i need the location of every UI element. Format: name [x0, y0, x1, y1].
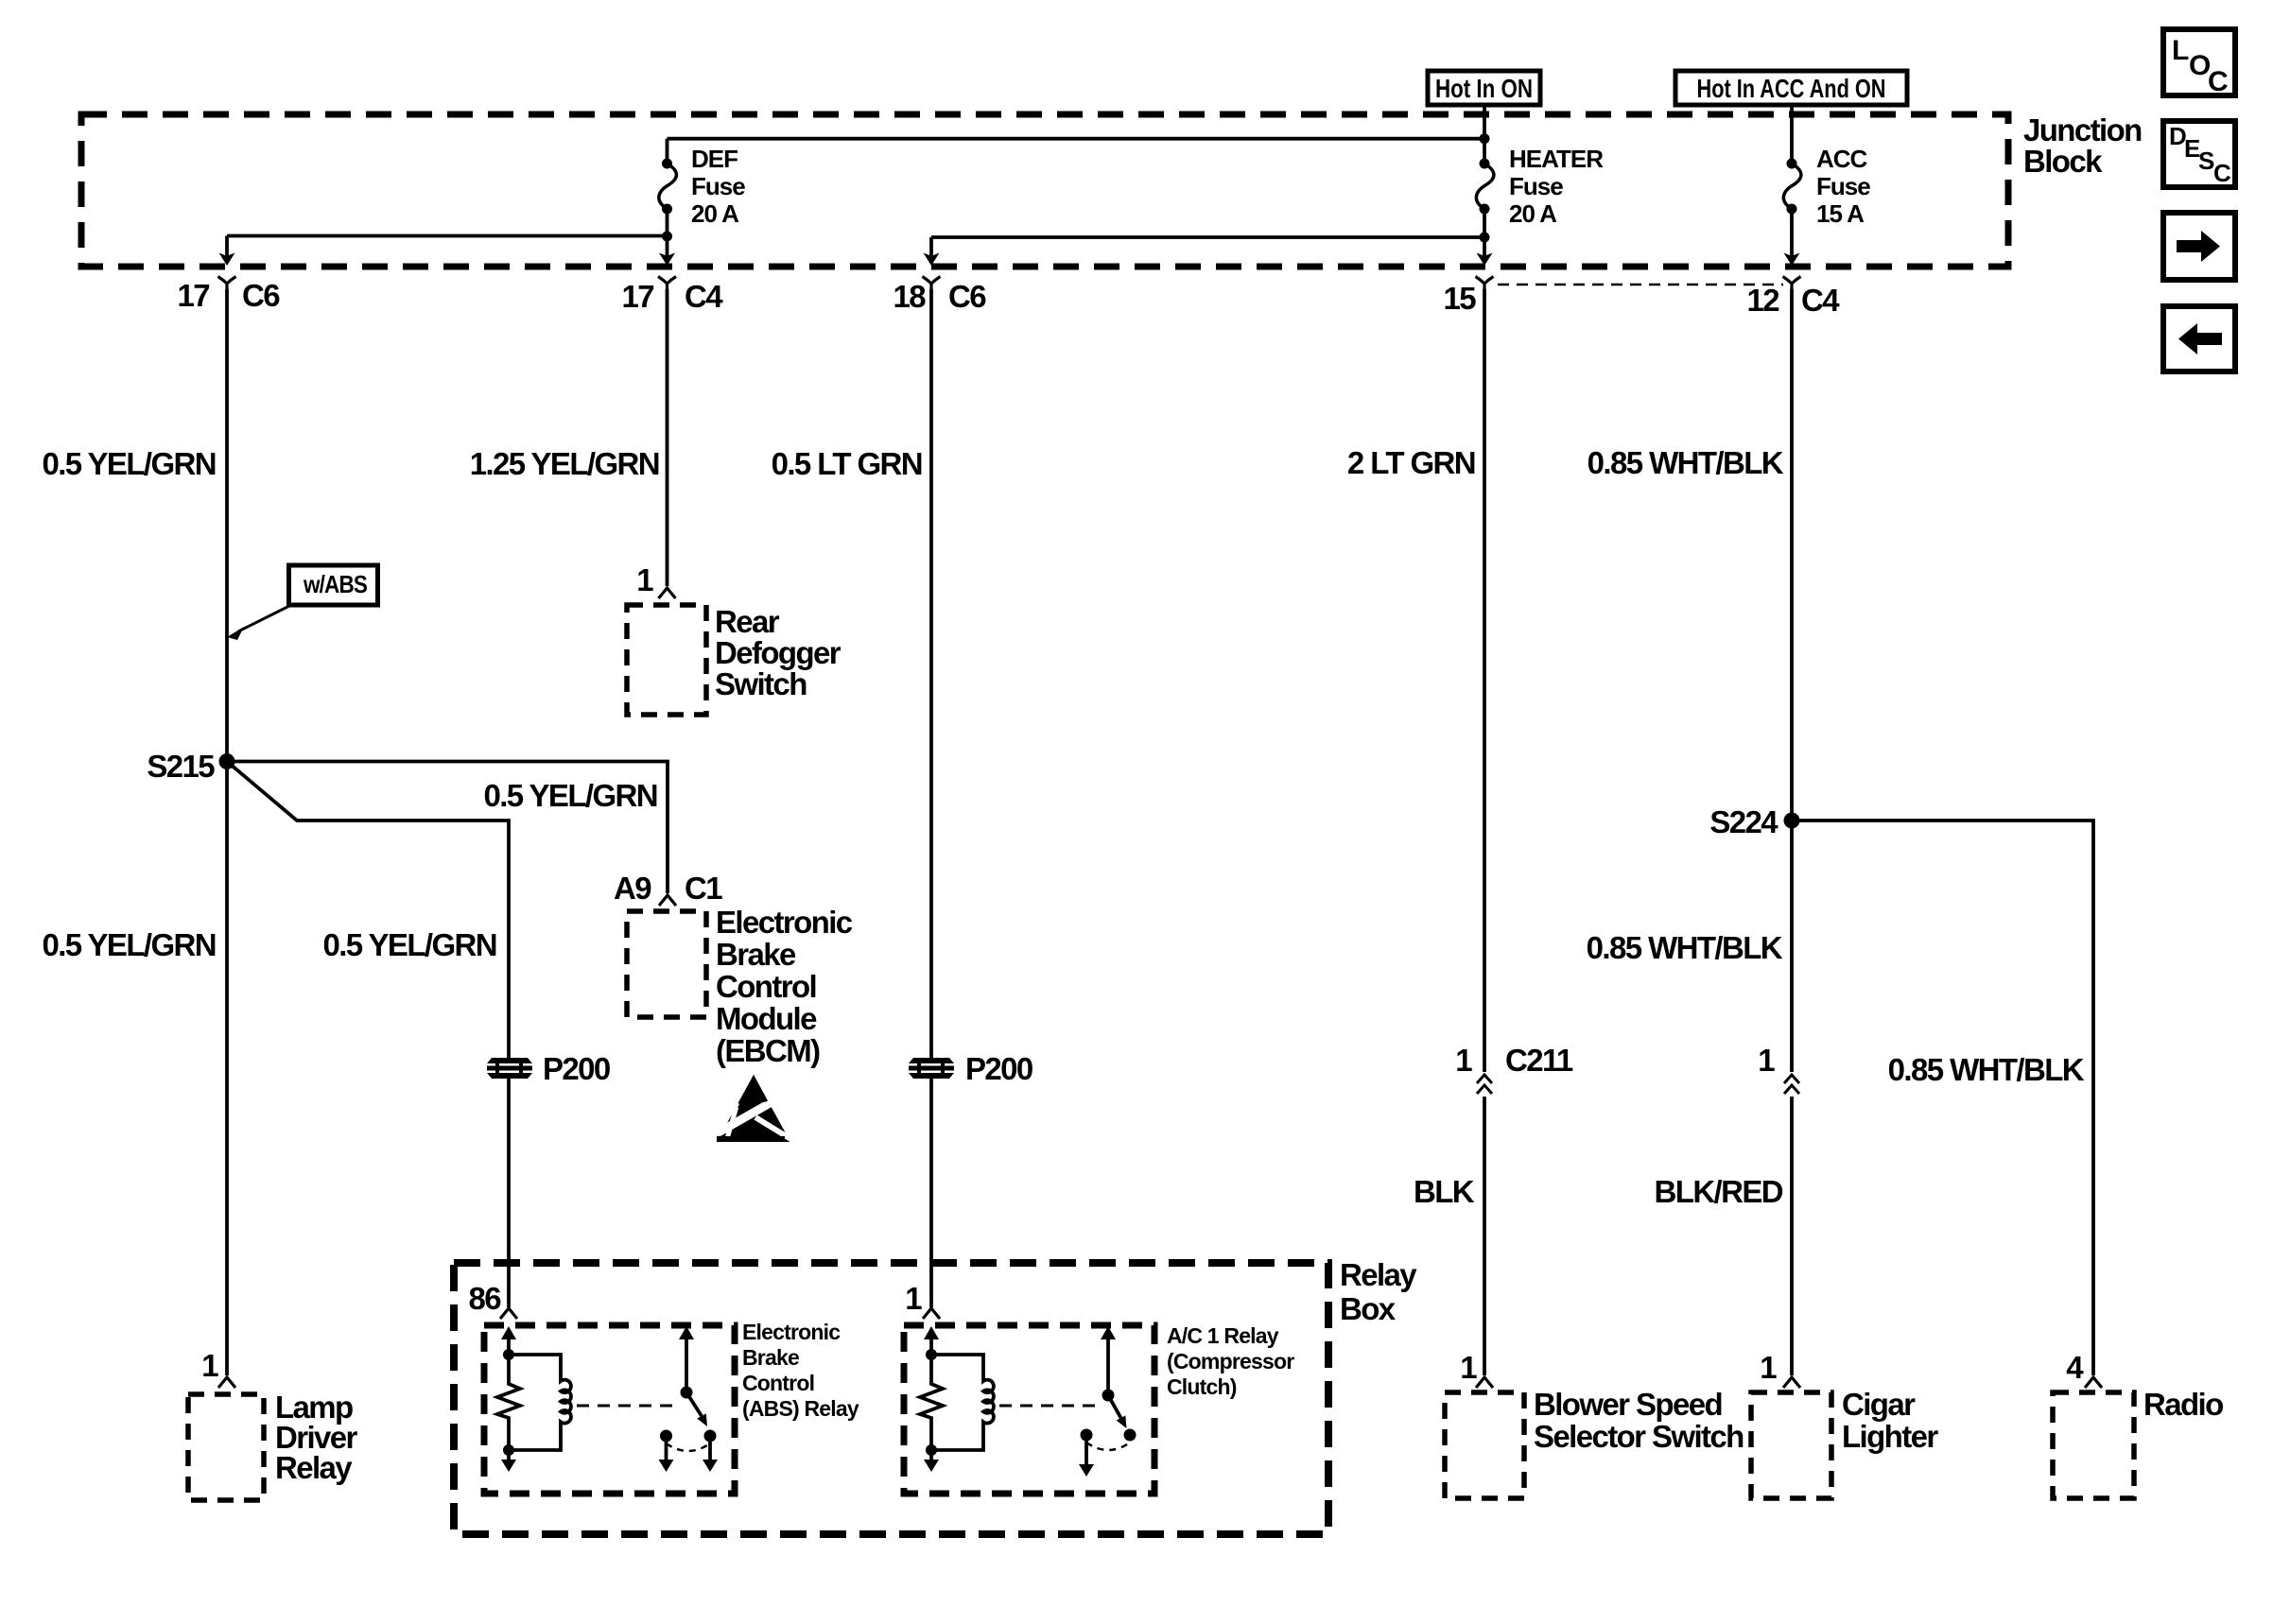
bottom node	[926, 1444, 937, 1456]
fuse HEATER 20A	[1476, 159, 1494, 215]
blower speed selector switch box	[1445, 1392, 1524, 1498]
svg-text:S215: S215	[147, 749, 215, 784]
wire: drop to connector 18 C6	[929, 237, 933, 255]
svg-text:Fuse: Fuse	[691, 172, 745, 200]
svg-text:P200: P200	[965, 1051, 1032, 1086]
svg-text:Fuse: Fuse	[1509, 172, 1563, 200]
wire: S215 diagonal branch to relay column	[227, 762, 509, 1059]
forward arrow box	[2163, 213, 2235, 280]
svg-text:Blower Speed: Blower Speed	[1534, 1387, 1722, 1422]
connector pin 12 C4	[1783, 277, 1801, 291]
svg-text:1: 1	[636, 562, 653, 597]
svg-text:S224: S224	[1709, 804, 1778, 839]
svg-text:18: 18	[893, 279, 926, 314]
svg-text:Junction: Junction	[2023, 112, 2142, 147]
svg-text:C1: C1	[685, 871, 722, 906]
cigar lighter box	[1751, 1392, 1831, 1498]
connector 1 inline (cigar)	[1784, 1075, 1799, 1094]
arm contact dot	[1124, 1429, 1136, 1442]
svg-text:Electronic: Electronic	[716, 905, 853, 940]
arm contact dot	[704, 1430, 717, 1443]
resistor	[497, 1355, 520, 1450]
svg-text:Fuse: Fuse	[1816, 172, 1870, 200]
svg-text:1: 1	[1455, 1043, 1472, 1078]
arrow into connector 15	[1477, 253, 1493, 267]
coil exit arrow	[929, 1450, 933, 1460]
top node	[926, 1349, 937, 1360]
entry arrow	[929, 1333, 933, 1355]
wire col3 below P200	[929, 1079, 933, 1307]
wire col4 below C211	[1483, 1097, 1486, 1375]
connector pin 15	[1476, 277, 1494, 291]
svg-text:C6: C6	[242, 278, 280, 313]
svg-text:C: C	[2208, 66, 2229, 97]
node: DEF lower tee	[662, 232, 672, 242]
wire: drop to connector 17 C6	[225, 236, 229, 256]
svg-text:ACC: ACC	[1816, 145, 1868, 173]
wire: HEATER fuse to lower tee	[1483, 209, 1486, 257]
switch arm	[686, 1392, 702, 1416]
svg-text:1: 1	[1758, 1043, 1775, 1078]
svg-text:Box: Box	[1340, 1291, 1397, 1326]
left contact exit arrow	[665, 1436, 668, 1460]
svg-text:Module: Module	[716, 1001, 817, 1036]
bottom node	[503, 1444, 514, 1456]
svg-text:(Compressor: (Compressor	[1167, 1349, 1294, 1373]
wire col1 down	[225, 289, 229, 1375]
wire col5 below connector	[1790, 1097, 1794, 1375]
connector 1 C211	[1477, 1075, 1492, 1094]
wire col2 to defogger	[666, 289, 669, 586]
radio box	[2053, 1392, 2134, 1498]
svg-text:w/ABS: w/ABS	[303, 570, 367, 598]
svg-text:15 A: 15 A	[1816, 199, 1865, 228]
w/ABS callout box	[227, 565, 378, 640]
resistor	[920, 1355, 943, 1450]
wire: ACC fuse down	[1790, 209, 1794, 257]
svg-text:Relay: Relay	[275, 1450, 353, 1485]
left contact exit arrow	[1084, 1435, 1088, 1465]
svg-text:1: 1	[905, 1281, 922, 1316]
svg-text:P200: P200	[543, 1051, 610, 1086]
Hot In ON box	[1428, 71, 1540, 105]
left contact dot	[1081, 1429, 1093, 1442]
svg-text:Hot In ON: Hot In ON	[1435, 74, 1533, 103]
svg-text:Rear: Rear	[715, 604, 780, 639]
svg-text:Radio: Radio	[2143, 1387, 2223, 1422]
svg-text:0.5 YEL/GRN: 0.5 YEL/GRN	[483, 778, 657, 813]
relay link dashed	[577, 1405, 678, 1408]
svg-text:Block: Block	[2023, 144, 2103, 179]
connector 1 rear defogger	[659, 588, 676, 598]
svg-text:0.85 WHT/BLK: 0.85 WHT/BLK	[1587, 930, 1783, 965]
connector pin 17 C4	[658, 277, 676, 291]
lamp driver relay box	[188, 1394, 264, 1500]
switch common arrow	[1106, 1338, 1110, 1395]
arm contact exit arrow	[708, 1436, 712, 1460]
svg-text:Brake: Brake	[742, 1345, 799, 1370]
svg-text:S: S	[2198, 147, 2214, 175]
svg-text:1: 1	[201, 1348, 218, 1383]
svg-text:1: 1	[1460, 1350, 1477, 1385]
travel arc dashed	[1086, 1443, 1130, 1450]
arrow into connector 17 C6	[219, 253, 235, 267]
switch pivot	[1102, 1390, 1115, 1402]
splice S224	[1784, 813, 1800, 829]
splice S215	[219, 753, 235, 769]
svg-text:1.25 YEL/GRN: 1.25 YEL/GRN	[470, 446, 659, 481]
LOC box	[2163, 29, 2235, 97]
svg-text:0.5 YEL/GRN: 0.5 YEL/GRN	[322, 927, 496, 962]
coil	[509, 1355, 571, 1450]
svg-text:(EBCM): (EBCM)	[716, 1033, 820, 1068]
svg-text:0.5 YEL/GRN: 0.5 YEL/GRN	[42, 927, 216, 962]
coil exit arrow	[507, 1450, 511, 1460]
fuse DEF 20A	[659, 159, 677, 215]
svg-text:0.85 WHT/BLK: 0.85 WHT/BLK	[1588, 445, 1784, 480]
svg-text:15: 15	[1443, 281, 1476, 316]
ABS relay inner box	[484, 1325, 735, 1494]
entry arrow	[507, 1333, 511, 1355]
grommet P200 right	[909, 1058, 954, 1079]
rear defogger switch box	[627, 605, 706, 715]
wire: DEF fuse to lower tee	[666, 209, 669, 257]
wire: feed from Hot In ACC And ON down	[1790, 105, 1794, 164]
svg-text:0.5 LT GRN: 0.5 LT GRN	[772, 446, 922, 481]
svg-text:20 A: 20 A	[1509, 199, 1557, 228]
svg-text:A9: A9	[614, 871, 651, 906]
switch pivot	[681, 1387, 693, 1399]
svg-text:Switch: Switch	[715, 666, 807, 701]
wire relay branch below P200	[507, 1079, 511, 1307]
svg-text:Electronic: Electronic	[742, 1320, 841, 1344]
wire: top horizontal DEF to HEATER	[668, 137, 1485, 141]
svg-text:C211: C211	[1505, 1043, 1573, 1078]
junction block (dashed box)	[81, 114, 2008, 267]
svg-text:2 LT GRN: 2 LT GRN	[1347, 445, 1475, 480]
svg-text:Brake: Brake	[716, 937, 796, 972]
connector pin 18 C6	[923, 277, 941, 291]
svg-text:A/C 1 Relay: A/C 1 Relay	[1167, 1323, 1279, 1348]
connector C4 dashed bar	[1498, 284, 1783, 286]
ESD symbol	[717, 1075, 792, 1142]
wire: S224 branch to radio column	[1792, 821, 2093, 1375]
connector pin 17 C6	[218, 277, 236, 291]
svg-text:12: 12	[1746, 283, 1779, 318]
left contact dot	[660, 1430, 672, 1443]
svg-text:BLK/RED: BLK/RED	[1655, 1174, 1783, 1209]
arrow into connector 18 C6	[924, 253, 940, 267]
wire: S215 to EBCM branch horizontal	[227, 762, 668, 894]
connector A9 C1	[659, 895, 676, 906]
svg-text:Clutch): Clutch)	[1167, 1374, 1237, 1399]
svg-text:C4: C4	[1801, 283, 1840, 318]
back arrow box	[2163, 306, 2235, 371]
svg-text:Hot In ACC And ON: Hot In ACC And ON	[1697, 74, 1886, 103]
wire: feed from Hot In ON down	[1483, 105, 1486, 164]
svg-text:BLK: BLK	[1414, 1174, 1475, 1209]
svg-text:86: 86	[468, 1281, 501, 1316]
wire: lower horizontal to C6 17	[227, 234, 668, 238]
wire col5 down to S224	[1790, 289, 1794, 1072]
svg-text:1: 1	[1760, 1350, 1777, 1385]
top node	[503, 1349, 514, 1360]
svg-text:0.85 WHT/BLK: 0.85 WHT/BLK	[1888, 1052, 2085, 1087]
ABS relay internals	[497, 1326, 718, 1472]
svg-text:4: 4	[2066, 1350, 2084, 1385]
wire: lower horizontal to C6 18	[931, 235, 1484, 239]
svg-text:17: 17	[621, 279, 653, 314]
relay box outer	[454, 1263, 1328, 1534]
svg-text:Defogger: Defogger	[715, 635, 842, 670]
travel arc dashed	[667, 1443, 711, 1451]
svg-text:C: C	[2213, 159, 2231, 187]
svg-text:C6: C6	[948, 279, 986, 314]
wire col3 down	[929, 289, 933, 1058]
svg-text:Lighter: Lighter	[1842, 1419, 1938, 1454]
arrow into connector 12 C4	[1784, 253, 1800, 267]
wire col4 down to C211	[1483, 289, 1486, 1072]
svg-text:(ABS) Relay: (ABS) Relay	[742, 1396, 859, 1421]
A/C relay inner box	[904, 1325, 1154, 1494]
svg-text:Relay: Relay	[1340, 1257, 1417, 1292]
svg-text:Control: Control	[716, 969, 816, 1004]
svg-text:17: 17	[177, 278, 209, 313]
node: HEATER lower tee	[1480, 233, 1490, 243]
switch common arrow	[685, 1338, 688, 1392]
svg-text:Control: Control	[742, 1371, 814, 1395]
EBCM box	[627, 911, 706, 1017]
node: heater top tee	[1480, 133, 1490, 144]
grommet P200 left	[487, 1058, 532, 1079]
fuse ACC 15A	[1783, 159, 1801, 215]
wire: DEF stub down	[666, 139, 669, 164]
svg-text:C4: C4	[685, 279, 723, 314]
A/C relay internals	[920, 1326, 1136, 1477]
svg-text:Cigar: Cigar	[1842, 1387, 1916, 1422]
relay link dashed	[999, 1405, 1101, 1408]
svg-text:L: L	[2172, 35, 2189, 66]
svg-text:Selector Switch: Selector Switch	[1534, 1419, 1744, 1454]
DESC box	[2163, 121, 2235, 187]
coil	[931, 1355, 994, 1450]
svg-text:0.5 YEL/GRN: 0.5 YEL/GRN	[42, 446, 216, 481]
svg-text:DEF: DEF	[691, 145, 737, 173]
arrow into connector 17 C4	[659, 253, 675, 267]
svg-text:20 A: 20 A	[691, 199, 739, 228]
switch arm	[1108, 1395, 1121, 1418]
svg-text:HEATER: HEATER	[1509, 145, 1604, 173]
Hot In ACC And ON box	[1675, 71, 1907, 105]
